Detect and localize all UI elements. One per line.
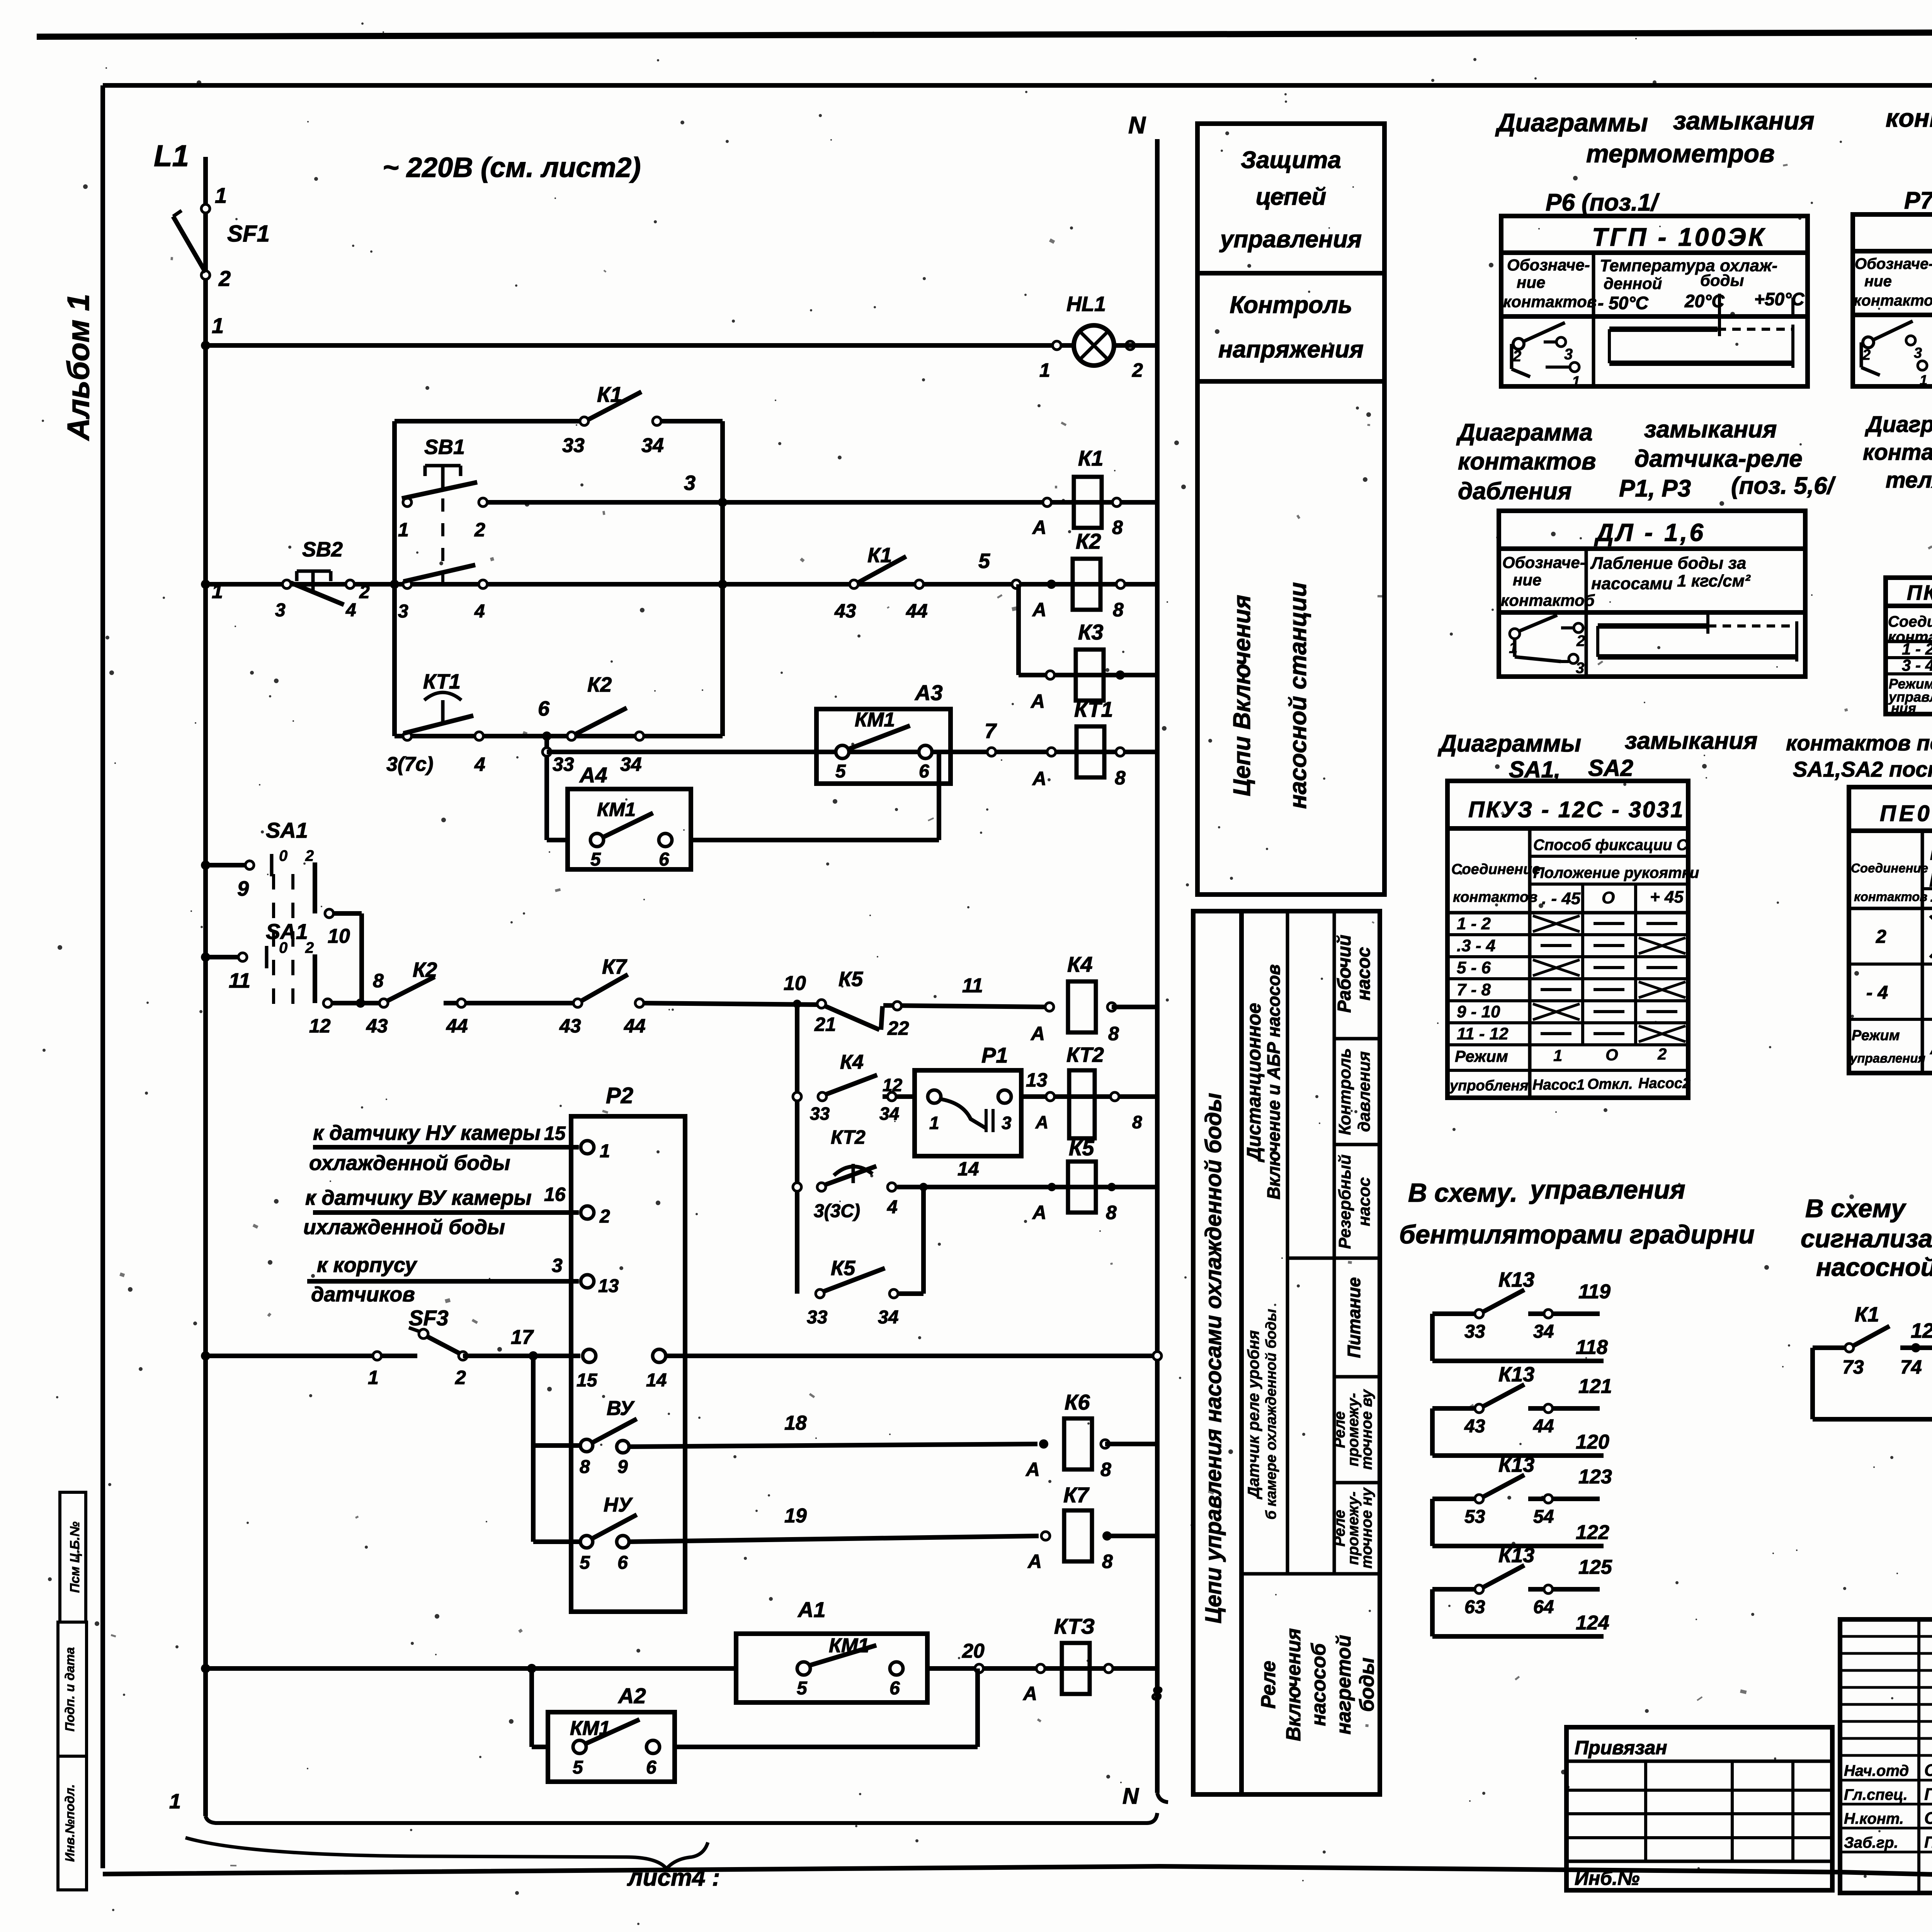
selector SA1 upper contact [206, 863, 250, 867]
svg-text:3: 3 [275, 600, 286, 621]
svg-text:1: 1 [368, 1367, 379, 1388]
svg-text:Соединение: Соединение [1851, 861, 1928, 875]
svg-text:управления: управления [1849, 1051, 1925, 1065]
svg-text:А2: А2 [617, 1684, 646, 1708]
svg-text:К5: К5 [1069, 1136, 1094, 1160]
middle column box 2: Контроль напряжения [1197, 273, 1384, 381]
lamp HL1 [1074, 325, 1114, 366]
svg-text:денной: денной [1604, 274, 1662, 293]
svg-text:Гисис: Гисис [1924, 1785, 1932, 1804]
svg-text:120: 120 [1576, 1431, 1609, 1453]
svg-text:+ 45: + 45 [1650, 888, 1684, 906]
trunk wire left of SB1 box [392, 421, 397, 736]
svg-text:А: А [1032, 599, 1046, 621]
svg-text:127: 127 [1911, 1319, 1932, 1342]
svg-text:44: 44 [1533, 1416, 1554, 1437]
svg-text:SВ1: SВ1 [424, 435, 465, 459]
svg-text:64: 64 [1533, 1597, 1554, 1617]
svg-text:А: А [1022, 1683, 1037, 1704]
svg-text:К13: К13 [1498, 1453, 1534, 1476]
svg-text:К13: К13 [1498, 1363, 1534, 1386]
svg-text:16: 16 [544, 1184, 566, 1205]
contact K4 33-34 on KT2 rung [818, 1092, 827, 1101]
svg-text:О: О [1605, 1046, 1618, 1064]
coil K7 [1064, 1510, 1092, 1561]
svg-text:121: 121 [1578, 1375, 1612, 1398]
svg-text:17: 17 [511, 1326, 534, 1349]
vertical bus node 10 down [795, 1004, 799, 1294]
svg-text:33: 33 [562, 434, 585, 457]
left margin stamp box 2 [58, 1622, 87, 1890]
svg-text:К3: К3 [1078, 620, 1104, 644]
svg-text:13: 13 [1026, 1069, 1048, 1091]
svg-text:насосной станции): насосной станции) [1816, 1253, 1932, 1281]
svg-text:1: 1 [600, 1141, 610, 1162]
svg-text:Откл.: Откл. [1587, 1076, 1633, 1092]
svg-text:8: 8 [373, 970, 384, 992]
svg-text:53: 53 [1464, 1507, 1485, 1527]
svg-text:9 - 10: 9 - 10 [1457, 1002, 1500, 1021]
N bus bottom hook [1157, 1793, 1168, 1802]
svg-text:Температура охлаж-: Температура охлаж- [1600, 256, 1777, 275]
svg-text:7 - 8: 7 - 8 [1457, 980, 1491, 999]
table PE031 [1849, 787, 1932, 1073]
svg-text:Заб.гр.: Заб.гр. [1844, 1834, 1898, 1851]
svg-text:20: 20 [962, 1640, 985, 1662]
svg-text:Цепи Включения: Цепи Включения [1229, 595, 1255, 796]
svg-text:1: 1 [1920, 372, 1927, 388]
rung A2 KM1 [532, 1745, 548, 1749]
svg-text:Контроль: Контроль [1230, 292, 1352, 318]
svg-text:10: 10 [328, 925, 350, 947]
wire to P2 pin 2 [313, 1210, 579, 1215]
branch down to A2 [529, 1668, 534, 1747]
svg-text:А: А [1030, 690, 1045, 712]
svg-text:К1: К1 [1078, 446, 1104, 470]
svg-text:ТГП - 100ЭК: ТГП - 100ЭК [1592, 223, 1766, 251]
time contact KT1 [403, 732, 412, 740]
contact K1 43-44 [850, 580, 858, 588]
svg-text:73: 73 [1842, 1356, 1864, 1378]
svg-text:Включения: Включения [1282, 1628, 1305, 1741]
cell Питание [1334, 1375, 1380, 1379]
svg-text:Инб.№: Инб.№ [1575, 1867, 1639, 1889]
svg-text:33: 33 [807, 1307, 828, 1328]
rung node1 SB2 / K2 coil [206, 582, 1157, 587]
coil K3 [1076, 650, 1104, 701]
svg-text:11 - 12: 11 - 12 [1457, 1024, 1509, 1043]
svg-text:Инв.№подл.: Инв.№подл. [63, 1784, 77, 1862]
rung A4 KM1 [547, 838, 568, 842]
svg-text:упробленя: упробленя [1449, 1078, 1528, 1094]
svg-text:.3 - 4: .3 - 4 [1457, 936, 1495, 955]
svg-text:А: А [1032, 517, 1046, 538]
svg-text:34: 34 [878, 1307, 898, 1328]
svg-text:замыкания: замыкания [1644, 416, 1777, 443]
contact chain K13 #4 [1430, 1589, 1435, 1636]
svg-text:1: 1 [169, 1790, 181, 1813]
svg-text:6: 6 [889, 1678, 900, 1699]
svg-text:34: 34 [1533, 1321, 1554, 1342]
breaker SF3 [419, 1329, 428, 1338]
rung KT1 contact / K2 contact [395, 734, 723, 738]
riser A4 output to node 7 rung [937, 752, 941, 840]
rung SF3 power P2 [206, 1354, 417, 1358]
svg-text:3(7с): 3(7с) [386, 753, 433, 776]
svg-text:3: 3 [1576, 660, 1584, 677]
contact K1 33-34 [580, 417, 588, 425]
left margin stamp box 1 [60, 1492, 86, 1622]
svg-text:контактов переключа-: контактов переключа- [1863, 440, 1932, 465]
svg-text:Насос1: Насос1 [1532, 1077, 1585, 1093]
contact chain K13 #2 [1430, 1408, 1435, 1456]
cell Рабочий насос [1334, 1037, 1380, 1041]
svg-text:Режим: Режим [1455, 1047, 1508, 1065]
svg-text:118: 118 [1576, 1336, 1608, 1359]
rung 3 / coil K1 [483, 500, 1157, 505]
svg-text:8: 8 [1112, 517, 1123, 538]
wire SA1 upper output [313, 862, 317, 913]
wire box top rung [395, 419, 584, 423]
svg-text:ихлажденной боды: ихлажденной боды [303, 1216, 505, 1239]
svg-text:Способ фиксации С: Способ фиксации С [1533, 837, 1688, 854]
svg-text:2: 2 [305, 939, 314, 956]
divider col B/C [1286, 911, 1289, 1574]
svg-text:Сиганоба: Сиганоба [1924, 1809, 1932, 1828]
pushbutton SB1 lower contact [403, 580, 412, 588]
svg-text:КТ1: КТ1 [423, 670, 461, 693]
block A1 KM1 [736, 1634, 927, 1702]
svg-text:Обозначе-: Обозначе- [1855, 255, 1932, 272]
L1 bus vertical wire [203, 157, 208, 1816]
svg-text:контактов: контактов [1453, 889, 1537, 905]
svg-text:2: 2 [1657, 1045, 1667, 1063]
svg-text:Подп. и дата: Подп. и дата [63, 1647, 77, 1732]
svg-text:SА2: SА2 [1588, 755, 1633, 781]
svg-text:Питание: Питание [1344, 1277, 1364, 1358]
svg-text:12: 12 [309, 1015, 331, 1037]
svg-text:К1: К1 [597, 382, 622, 406]
svg-text:8: 8 [1132, 1112, 1142, 1132]
svg-text:Лабление боды за: Лабление боды за [1590, 554, 1746, 573]
svg-text:4: 4 [887, 1197, 898, 1218]
svg-text:В схему: В схему [1805, 1194, 1906, 1223]
relay block P2 box [571, 1116, 685, 1612]
node A coil K1 [1043, 498, 1051, 507]
svg-text:КМ1: КМ1 [597, 799, 636, 820]
svg-text:54: 54 [1533, 1507, 1554, 1527]
svg-text:теля: теля [1886, 468, 1932, 493]
svg-text:1 кгс/см²: 1 кгс/см² [1677, 571, 1751, 590]
table PKU3-12I-0101 [1886, 578, 1932, 714]
svg-text:2: 2 [1132, 359, 1143, 381]
svg-text:контактов: контактов [1503, 293, 1597, 311]
svg-text:Альбом 1: Альбом 1 [61, 294, 95, 441]
svg-text:124: 124 [1576, 1612, 1609, 1634]
svg-text:5: 5 [797, 1678, 808, 1699]
svg-text:6: 6 [538, 697, 550, 720]
svg-text:1 - 2: 1 - 2 [1902, 640, 1932, 658]
block A3 with contact KM1 [816, 709, 951, 784]
svg-text:3: 3 [1002, 1113, 1012, 1133]
svg-text:боды: боды [1356, 1658, 1378, 1712]
rung P1 / coil KT2 [793, 1092, 801, 1101]
svg-text:КТЗ: КТЗ [1054, 1614, 1095, 1638]
svg-text:33: 33 [1464, 1321, 1485, 1342]
svg-text:4: 4 [474, 601, 485, 622]
svg-text:К2: К2 [1076, 529, 1101, 553]
middle column box 1: Защита цепей управления [1197, 124, 1384, 273]
svg-text:В схему.: В схему. [1408, 1178, 1517, 1207]
svg-text:2: 2 [455, 1367, 466, 1388]
middle column box 4 outer [1193, 911, 1380, 1794]
svg-text:34: 34 [620, 753, 642, 775]
svg-text:контактов: контактов [1854, 292, 1932, 309]
svg-text:SА1,SА2 постоб S1,S2,S3: SА1,SА2 постоб S1,S2,S3 [1793, 757, 1932, 781]
svg-text:Диаграмма: Диаграмма [1864, 412, 1932, 437]
svg-text:13: 13 [598, 1276, 619, 1296]
selector SA1 lower contact [206, 955, 243, 959]
svg-text:КТ1: КТ1 [1074, 697, 1113, 721]
brace list4 [185, 1838, 708, 1869]
svg-text:HL1: HL1 [1066, 293, 1106, 316]
svg-text:давления: давления [1355, 1051, 1374, 1132]
svg-text:2: 2 [1576, 633, 1585, 650]
svg-text:К7: К7 [1063, 1483, 1090, 1507]
riser K5 contact to rung 14 [921, 1187, 926, 1294]
svg-text:11: 11 [229, 969, 250, 992]
DL body diagram [1598, 623, 1708, 629]
rung KT1 coil via A3 [543, 748, 551, 756]
svg-text:1: 1 [215, 183, 227, 207]
svg-text:НУ: НУ [604, 1494, 633, 1516]
svg-text:~ 220В (см. лист2): ~ 220В (см. лист2) [383, 152, 641, 183]
svg-text:43: 43 [559, 1015, 581, 1037]
svg-text:Дистанционное: Дистанционное [1243, 1003, 1265, 1162]
svg-text:43: 43 [834, 600, 856, 622]
svg-text:Р6 (поз.1/: Р6 (поз.1/ [1546, 189, 1660, 216]
svg-text:- 4: - 4 [1866, 983, 1888, 1003]
wire to P2 pin 1 [313, 1145, 579, 1150]
svg-text:2: 2 [1512, 348, 1521, 365]
svg-text:А: А [1032, 1202, 1046, 1223]
svg-text:ВУ: ВУ [607, 1397, 635, 1420]
svg-text:21: 21 [814, 1014, 836, 1035]
svg-text:1: 1 [1039, 359, 1050, 381]
scan noise speckles [1062, 499, 1065, 502]
svg-text:34: 34 [879, 1104, 899, 1124]
svg-text:Включение и АБР насосов: Включение и АБР насосов [1264, 964, 1284, 1199]
svg-text:Положение рукоятки: Положение рукоятки [1533, 864, 1699, 881]
svg-text:125: 125 [1578, 1556, 1612, 1578]
svg-text:4: 4 [474, 753, 485, 775]
riser from node 6 down to A3/A4 [544, 736, 549, 840]
svg-text:замыкания: замыкания [1673, 106, 1815, 135]
svg-text:4: 4 [345, 600, 356, 621]
svg-text:управления: управления [1219, 226, 1362, 253]
svg-text:34: 34 [641, 434, 664, 457]
svg-text:К13: К13 [1498, 1544, 1534, 1567]
border top thick line [37, 31, 1932, 37]
svg-text:Защита: Защита [1241, 147, 1341, 173]
svg-text:ния: ния [1891, 700, 1916, 716]
svg-text:8: 8 [1115, 767, 1126, 789]
svg-text:Нач.отд: Нач.отд [1844, 1762, 1909, 1779]
svg-text:Р1: Р1 [981, 1043, 1008, 1067]
svg-text:лист4 :: лист4 : [627, 1864, 720, 1891]
dashed link SB1 [441, 498, 444, 595]
svg-text:К1: К1 [1855, 1303, 1879, 1326]
svg-text:к датчику ВУ камеры: к датчику ВУ камеры [305, 1186, 532, 1209]
svg-text:насос: насос [1354, 947, 1374, 1000]
svg-text:3 - 4: 3 - 4 [1902, 656, 1932, 674]
table P6 TGP-100EK [1501, 216, 1808, 386]
svg-text:33: 33 [553, 753, 574, 775]
svg-text:ПКУЗ - 12С - 3031: ПКУЗ - 12С - 3031 [1468, 797, 1685, 822]
svg-text:нагретой: нагретой [1333, 1635, 1355, 1735]
dashed linkage SA1 [272, 874, 275, 1005]
svg-text:К1: К1 [867, 544, 892, 567]
svg-text:3: 3 [398, 601, 408, 622]
svg-text:Диаграмма: Диаграмма [1456, 419, 1593, 446]
svg-text:N: N [1122, 1784, 1139, 1809]
cell Резервный насос [1287, 1257, 1380, 1260]
svg-text:0: 0 [279, 939, 287, 956]
frame bottom border [103, 1866, 1932, 1893]
svg-text:Семин: Семин [1924, 1761, 1932, 1780]
svg-text:К5: К5 [831, 1257, 855, 1280]
svg-text:SВ2: SВ2 [302, 538, 343, 561]
pushbutton SB2 [282, 580, 291, 588]
svg-text:119: 119 [1578, 1281, 1611, 1303]
svg-text:Соединен.: Соединен. [1888, 613, 1932, 630]
wire SA1 lower output [313, 954, 317, 1003]
svg-text:SА1,: SА1, [1509, 757, 1560, 782]
svg-text:Абт.: Абт. [1930, 1039, 1932, 1058]
block A4 with contact KM1 [568, 789, 691, 869]
contact NU inside P2 / rung K7 coil [533, 1539, 580, 1544]
svg-text:Резербный: Резербный [1335, 1155, 1354, 1249]
svg-text:Гл.спец.: Гл.спец. [1844, 1786, 1908, 1803]
svg-text:3: 3 [1914, 345, 1922, 361]
DL body contact [1510, 629, 1520, 639]
svg-text:КТ2: КТ2 [831, 1126, 866, 1148]
svg-text:термометров: термометров [1586, 139, 1775, 168]
rung A1 KT3 [206, 1666, 736, 1671]
svg-text:Контроль: Контроль [1335, 1048, 1354, 1135]
svg-text:ние: ние [1513, 571, 1541, 589]
svg-text:5: 5 [573, 1757, 583, 1778]
svg-text:О: О [1602, 888, 1615, 907]
coil K5 [1068, 1162, 1096, 1213]
svg-text:КМ1: КМ1 [570, 1717, 610, 1740]
wire rung HL1 [206, 343, 1072, 348]
wire to P2 pin 13 [307, 1279, 579, 1284]
svg-text:3(3С): 3(3С) [814, 1201, 860, 1221]
svg-text:охлажденной боды: охлажденной боды [309, 1151, 510, 1175]
contact chain K13 #3 [1430, 1499, 1435, 1546]
svg-text:2: 2 [1862, 347, 1871, 363]
svg-text:ПЕ031: ПЕ031 [1880, 801, 1932, 826]
rung coil K5 with KT2 bell contact [793, 1183, 801, 1191]
svg-text:Обозначе-: Обозначе- [1507, 256, 1590, 274]
svg-text:управления: управления [1529, 1175, 1685, 1204]
table DL-1.6 [1499, 511, 1805, 677]
svg-text:63: 63 [1464, 1597, 1485, 1617]
title block small grid [1840, 1619, 1932, 1893]
svg-text:122: 122 [1576, 1521, 1609, 1544]
coil K2 [1073, 559, 1100, 610]
svg-text:6: 6 [617, 1553, 628, 1573]
svg-text:44: 44 [624, 1015, 646, 1037]
branch from 17 down [531, 1356, 536, 1542]
svg-text:8: 8 [1151, 1683, 1162, 1704]
svg-text:1: 1 [212, 313, 224, 338]
svg-text:насосами: насосами [1591, 574, 1673, 593]
N bus vertical wire [1155, 139, 1160, 1793]
Привязан box [1566, 1727, 1832, 1890]
coil K1 [1074, 477, 1102, 528]
svg-text:Диаграммы: Диаграммы [1437, 730, 1581, 757]
svg-text:А: А [1027, 1551, 1042, 1572]
rung 12-43-44 / K2 K7 K5 contacts [332, 1001, 380, 1005]
pressure relay P1 box [915, 1070, 1021, 1156]
svg-text:дабления: дабления [1458, 478, 1571, 505]
table PKU3-12S-3031 [1447, 781, 1688, 1098]
svg-text:точное ву: точное ву [1358, 1389, 1375, 1469]
node A coil K4 [1045, 1003, 1054, 1011]
cell Реле включения насосов нагретой воды [1242, 1572, 1380, 1576]
PKU3-12S bottom rows [1447, 1069, 1688, 1072]
svg-text:8: 8 [1106, 1202, 1117, 1223]
svg-text:8: 8 [1113, 599, 1124, 621]
svg-text:Привязан: Привязан [1575, 1737, 1667, 1759]
svg-text:сигнализации( бключение: сигнализации( бключение [1801, 1224, 1932, 1253]
svg-text:насос: насос [1355, 1177, 1374, 1226]
svg-text:8: 8 [1108, 1023, 1119, 1044]
svg-text:8: 8 [1100, 1459, 1111, 1480]
svg-text:насосной станции: насосной станции [1285, 582, 1311, 809]
svg-text:КТ2: КТ2 [1066, 1043, 1104, 1066]
svg-text:0: 0 [279, 847, 287, 864]
svg-text:А: А [1035, 1112, 1048, 1132]
svg-text:Соединение: Соединение [1451, 861, 1540, 878]
svg-text:контактов переключателей: контактов переключателей [1786, 731, 1932, 755]
svg-text:18: 18 [784, 1412, 807, 1434]
contact chain K13 #1 [1430, 1314, 1435, 1361]
svg-text:5: 5 [580, 1553, 590, 1573]
svg-text:43: 43 [366, 1015, 388, 1037]
svg-text:5: 5 [978, 549, 990, 573]
svg-text:9: 9 [617, 1457, 628, 1477]
svg-text:1: 1 [929, 1113, 939, 1133]
svg-text:Р2: Р2 [606, 1083, 633, 1108]
svg-text:6: 6 [659, 849, 669, 870]
svg-text:к корпусу: к корпусу [317, 1253, 418, 1277]
svg-text:датчика-реле: датчика-реле [1634, 446, 1803, 472]
svg-text:Цепи управления насосами: Цепи управления насосами охлажденной бод… [1201, 1093, 1226, 1623]
svg-text:L1: L1 [154, 139, 189, 173]
svg-text:9: 9 [237, 877, 249, 900]
contact VU inside P2 / rung K6 [533, 1443, 580, 1448]
svg-text:контактов: контактов [1886, 104, 1932, 132]
svg-text:14: 14 [646, 1370, 667, 1391]
svg-text:15: 15 [577, 1370, 598, 1391]
contact K5 transfer 21-22 [817, 1000, 826, 1008]
svg-text:К6: К6 [1065, 1390, 1090, 1414]
svg-text:контактов: контактов [1458, 448, 1596, 475]
svg-text:К7: К7 [602, 955, 628, 978]
